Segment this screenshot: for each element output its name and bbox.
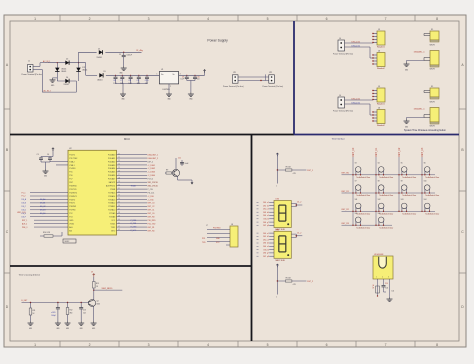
svg-text:LM7805: LM7805 — [163, 89, 171, 91]
svg-text:P31_TXD: P31_TXD — [148, 223, 156, 225]
svg-text:C9: C9 — [137, 80, 139, 82]
svg-text:R9: R9 — [166, 170, 168, 172]
svg-text:-C_DS41: -C_DS41 — [148, 165, 155, 167]
svg-text:KEY_C1: KEY_C1 — [148, 210, 155, 212]
svg-text:P17_D: P17_D — [148, 179, 154, 181]
svg-text:XB02_FB320: XB02_FB320 — [102, 288, 113, 290]
svg-text:XB1_CRC10: XB1_CRC10 — [148, 182, 158, 184]
svg-text:Vin: Vin — [161, 74, 163, 76]
svg-text:P31: P31 — [202, 238, 205, 240]
svg-text:INT2: INT2 — [111, 230, 115, 232]
svg-text:DL_2: DL_2 — [297, 232, 301, 234]
svg-text:E_DET: E_DET — [22, 300, 29, 302]
svg-text:DS?_2: DS?_2 — [307, 281, 313, 283]
svg-text:P_RXD: P_RXD — [131, 220, 137, 222]
svg-text:3: 3 — [148, 17, 150, 21]
svg-text:P15: P15 — [69, 172, 72, 174]
svg-text:DS6: DS6 — [276, 229, 279, 231]
svg-text:DL_2: DL_2 — [297, 202, 301, 204]
svg-text:RXD1: RXD1 — [110, 223, 115, 225]
svg-text:104: 104 — [128, 83, 131, 85]
svg-text:P36/WR: P36/WR — [69, 206, 76, 208]
svg-text:KEY_C2: KEY_C2 — [148, 206, 155, 208]
svg-text:D4: D4 — [66, 77, 68, 79]
svg-text:P35/T1: P35/T1 — [69, 203, 75, 205]
svg-text:P37/RD: P37/RD — [69, 210, 76, 212]
svg-text:P_VCC: P_VCC — [131, 230, 137, 232]
svg-text:-C_R11: -C_R11 — [148, 199, 154, 201]
svg-text:2: 2 — [89, 17, 91, 21]
svg-text:J8: J8 — [231, 224, 233, 226]
svg-text:J1: J1 — [28, 61, 30, 63]
svg-text:S1: S1 — [431, 29, 433, 31]
svg-text:DS_F: DS_F — [22, 216, 26, 218]
svg-text:USR_1 (1): USR_1 (1) — [17, 212, 26, 214]
svg-text:KEY_R3: KEY_R3 — [342, 223, 349, 225]
svg-text:Reader2: Reader2 — [377, 68, 386, 70]
svg-text:J?: J? — [206, 225, 208, 227]
svg-text:P31/TXD: P31/TXD — [69, 189, 77, 191]
svg-text:6: 6 — [326, 17, 328, 21]
svg-text:S1: S1 — [431, 86, 433, 88]
svg-text:P30 RXD: P30 RXD — [213, 228, 221, 230]
svg-text:P13: P13 — [69, 217, 72, 219]
svg-text:P33/INT1: P33/INT1 — [69, 196, 77, 198]
svg-text:D1: D1 — [98, 49, 100, 51]
svg-text:C6: C6 — [113, 80, 115, 82]
svg-text:5: 5 — [267, 343, 269, 347]
svg-text:P1_2: P1_2 — [22, 196, 26, 198]
svg-text:DS4-DS47_1: DS4-DS47_1 — [148, 154, 159, 156]
svg-text:P11/T2EX: P11/T2EX — [69, 158, 78, 160]
svg-text:6: 6 — [326, 343, 328, 347]
svg-text:7: 7 — [385, 343, 387, 347]
svg-text:C3: C3 — [37, 154, 39, 156]
svg-text:4: 4 — [207, 17, 209, 21]
svg-text:104: 104 — [137, 83, 140, 85]
svg-text:Reader2: Reader2 — [377, 125, 386, 127]
svg-text:DS_E4: DS_E4 — [40, 213, 45, 215]
svg-text:C11: C11 — [178, 158, 181, 160]
svg-text:PSE_3: PSE_3 — [22, 227, 27, 229]
svg-text:Reader1: Reader1 — [377, 103, 386, 105]
svg-text:J4: J4 — [339, 95, 341, 97]
svg-text:1N4448L_1: 1N4448L_1 — [414, 52, 426, 54]
svg-text:P_TXD: P_TXD — [131, 223, 137, 225]
svg-text:KEY_C1: KEY_C1 — [376, 147, 378, 157]
svg-text:DS_C: DS_C — [22, 206, 27, 208]
svg-text:DS1-in21: DS1-in21 — [352, 41, 361, 43]
svg-text:DS0-in21: DS0-in21 — [352, 102, 361, 104]
svg-text:-C_DS42: -C_DS42 — [148, 168, 155, 170]
svg-text:10uF: 10uF — [185, 163, 189, 165]
svg-text:GND: GND — [69, 220, 74, 222]
svg-text:P34/T0: P34/T0 — [69, 199, 75, 201]
svg-text:P_C5L: P_C5L — [148, 189, 154, 191]
svg-text:J4: J4 — [339, 38, 341, 40]
svg-text:Power Supply: Power Supply — [207, 39, 228, 43]
svg-text:KEY_R1: KEY_R1 — [342, 191, 349, 193]
svg-text:7: 7 — [385, 17, 387, 21]
svg-text:DS?_2: DS?_2 — [148, 161, 154, 163]
svg-text:7K10B: 7K10B — [131, 185, 137, 187]
svg-text:DS1-in21: DS1-in21 — [352, 98, 361, 100]
svg-text:KEY_R1: KEY_R1 — [148, 227, 155, 229]
svg-text:KEY_R3: KEY_R3 — [148, 217, 155, 219]
svg-text:8: 8 — [436, 17, 438, 21]
svg-text:P16: P16 — [69, 175, 72, 177]
svg-text:KEY_C3: KEY_C3 — [422, 147, 424, 157]
svg-text:P_GND: P_GND — [131, 227, 138, 229]
svg-text:104: 104 — [120, 83, 123, 85]
svg-text:P12: P12 — [69, 213, 72, 215]
svg-text:D2: D2 — [66, 59, 68, 61]
svg-text:DS_C2: DS_C2 — [40, 206, 46, 208]
svg-text:P10/T2: P10/T2 — [69, 154, 75, 156]
svg-text:KEY_C3: KEY_C3 — [148, 203, 155, 205]
svg-text:U3 HS0038: U3 HS0038 — [374, 254, 383, 256]
svg-text:DS_D3: DS_D3 — [40, 209, 46, 211]
svg-text:KEY_R2: KEY_R2 — [342, 209, 349, 211]
svg-text:1N4448L_1: 1N4448L_1 — [414, 109, 426, 111]
svg-text:KEY_C0: KEY_C0 — [353, 147, 355, 157]
svg-text:JP2: JP2 — [269, 72, 272, 74]
svg-text:VSS2: VSS2 — [69, 223, 74, 225]
svg-text:C7: C7 — [120, 80, 122, 82]
svg-text:Vo: Vo — [173, 74, 175, 76]
svg-text:U1: U1 — [161, 69, 163, 71]
svg-text:P30_RXD: P30_RXD — [148, 220, 157, 222]
svg-text:C4: C4 — [47, 154, 49, 156]
svg-text:XB2_CRC10: XB2_CRC10 — [148, 185, 158, 187]
svg-text:C8: C8 — [128, 80, 130, 82]
svg-text:TXD1: TXD1 — [111, 227, 116, 229]
svg-text:Power Terminal (Pin line): Power Terminal (Pin line) — [333, 54, 353, 56]
svg-text:JP1: JP1 — [233, 72, 236, 74]
svg-text:DS0-in21: DS0-in21 — [352, 45, 361, 47]
svg-text:KEY_R0: KEY_R0 — [342, 173, 349, 175]
svg-text:P1_1: P1_1 — [22, 192, 26, 194]
svg-text:MBS? SUB: MBS? SUB — [276, 260, 286, 262]
svg-text:P17: P17 — [69, 179, 72, 181]
svg-text:Reader1: Reader1 — [377, 46, 386, 48]
svg-text:-C_R10: -C_R10 — [148, 196, 154, 198]
svg-text:1: 1 — [34, 343, 36, 347]
svg-text:PSEN: PSEN — [110, 189, 116, 191]
svg-text:P30/RXD: P30/RXD — [69, 185, 77, 187]
svg-text:P32/INT0: P32/INT0 — [69, 192, 77, 194]
svg-text:KEY_R0: KEY_R0 — [148, 230, 155, 232]
svg-text:R10 8.2K: R10 8.2K — [43, 232, 51, 234]
svg-text:-C_DS43: -C_DS43 — [148, 172, 155, 174]
svg-text:CF_dNg: CF_dNg — [136, 50, 143, 52]
svg-text:KEY_C2: KEY_C2 — [399, 147, 401, 157]
svg-text:KEY_C0: KEY_C0 — [148, 213, 155, 215]
svg-text:2: 2 — [89, 343, 91, 347]
svg-text:1: 1 — [34, 17, 36, 21]
svg-text:DS6: DS6 — [276, 199, 279, 201]
svg-text:4: 4 — [207, 343, 209, 347]
svg-text:-C_DS44: -C_DS44 — [148, 175, 155, 177]
svg-text:3: 3 — [148, 343, 150, 347]
svg-text:DS4-DS47_2: DS4-DS47_2 — [148, 158, 159, 160]
svg-text:8: 8 — [436, 343, 438, 347]
svg-text:PS_C0L: PS_C0L — [148, 192, 155, 194]
svg-text:RST_1: RST_1 — [22, 220, 27, 222]
svg-text:SDS2: SDS2 — [65, 241, 70, 243]
svg-text:104: 104 — [145, 83, 148, 85]
svg-text:DS_B1: DS_B1 — [40, 203, 45, 205]
svg-text:104: 104 — [113, 83, 116, 85]
svg-text:5: 5 — [267, 17, 269, 21]
svg-text:D5: D5 — [104, 71, 106, 73]
svg-text:P14/SS: P14/SS — [69, 168, 76, 170]
svg-text:Power Terminal (Pin line): Power Terminal (Pin line) — [333, 111, 353, 113]
svg-text:C10: C10 — [145, 80, 148, 82]
svg-text:DS?_1: DS?_1 — [307, 170, 313, 172]
svg-text:DS_D: DS_D — [22, 210, 27, 212]
